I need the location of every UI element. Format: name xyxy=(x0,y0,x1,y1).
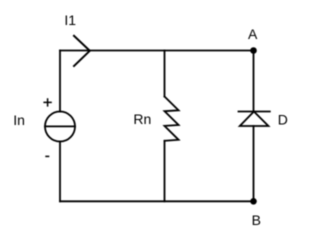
label minus xyxy=(45,155,49,157)
resistor Rn (sawtooth) xyxy=(165,97,179,141)
current source In (circle with bar) xyxy=(45,112,75,142)
label A xyxy=(248,26,258,42)
label I1 xyxy=(64,12,76,28)
label plus xyxy=(43,98,51,106)
label Rn xyxy=(133,111,151,127)
wire middle upper (resistor top lead) xyxy=(164,51,166,97)
svg-text:I1: I1 xyxy=(64,12,76,28)
svg-text:In: In xyxy=(13,112,25,128)
wire middle lower (resistor bottom lead) xyxy=(164,141,166,202)
svg-text:D: D xyxy=(278,111,288,127)
wire right lower (diode anode lead) xyxy=(253,126,255,201)
svg-text:Rn: Rn xyxy=(133,111,151,127)
wire left lower xyxy=(59,142,61,202)
node B junction dot xyxy=(250,198,257,205)
current direction arrow I1 xyxy=(74,36,90,66)
node A junction dot xyxy=(250,47,257,54)
label B xyxy=(252,212,261,228)
label D xyxy=(278,111,288,127)
svg-text:B: B xyxy=(252,212,261,228)
wire bottom (node B rail) xyxy=(60,200,254,202)
wire right upper (diode cathode lead) xyxy=(253,51,255,112)
wire top (node A rail) xyxy=(60,50,254,52)
wire left upper xyxy=(59,51,61,112)
diode D xyxy=(239,112,270,127)
label In xyxy=(13,112,25,128)
svg-text:A: A xyxy=(248,26,258,42)
